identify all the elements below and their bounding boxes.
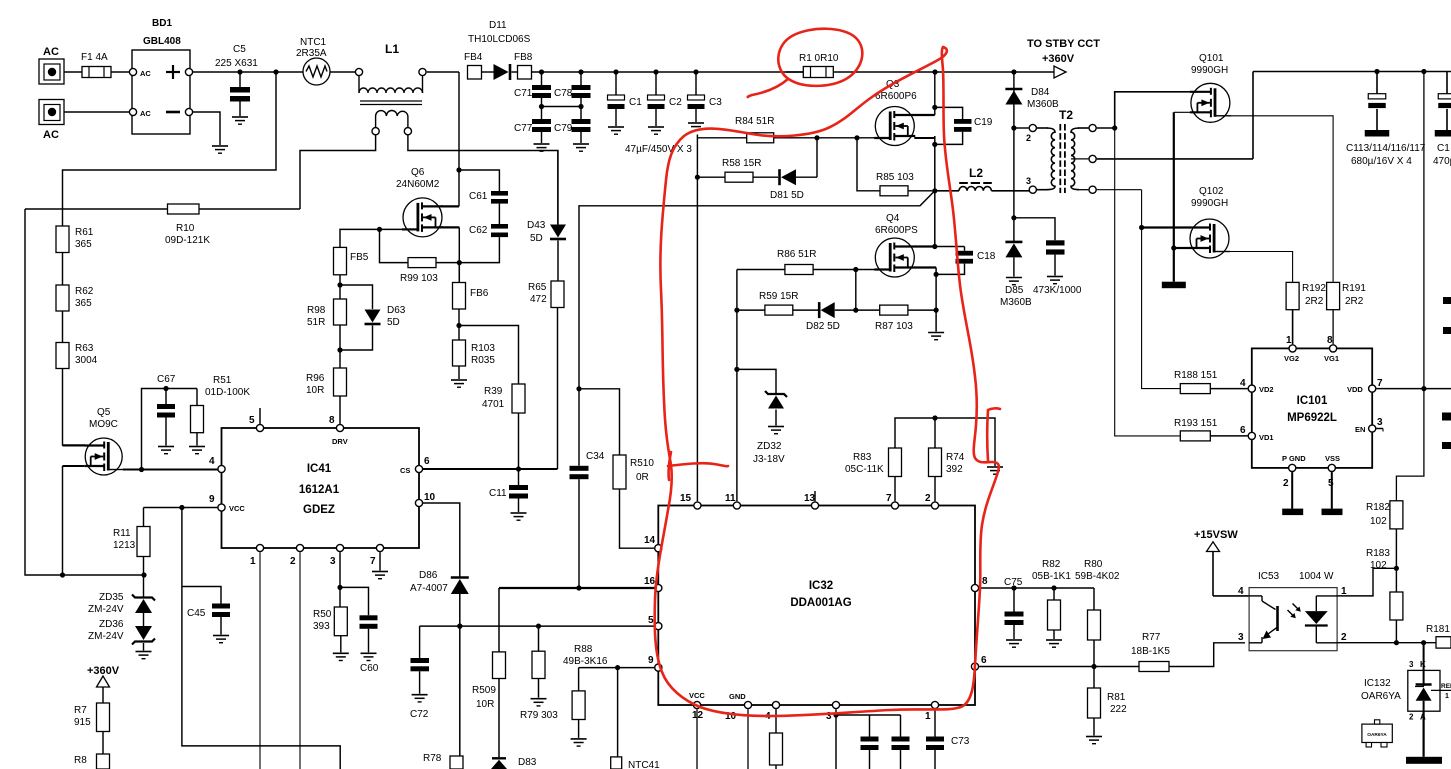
ground at R81 <box>1086 737 1102 744</box>
svg-text:D43: D43 <box>527 220 546 231</box>
svg-text:R035: R035 <box>471 355 495 366</box>
svg-text:TO STBY CCT: TO STBY CCT <box>1027 38 1100 50</box>
svg-text:MP6922L: MP6922L <box>1287 412 1337 424</box>
svg-text:R7: R7 <box>74 705 87 716</box>
wire VCC node to C45 <box>182 508 340 769</box>
capacitor C19 <box>935 107 993 144</box>
capacitor C34 <box>570 386 605 588</box>
svg-text:C77: C77 <box>514 123 533 134</box>
svg-text:18B-1K5: 18B-1K5 <box>1131 646 1170 657</box>
svg-text:7: 7 <box>1377 378 1383 389</box>
svg-text:R191: R191 <box>1342 283 1366 294</box>
capacitor C67 <box>157 374 176 446</box>
svg-text:R83: R83 <box>853 452 872 463</box>
svg-text:10R: 10R <box>476 699 494 710</box>
svg-text:R61: R61 <box>75 227 94 238</box>
svg-text:51R: 51R <box>307 317 325 328</box>
ground at ZD32 <box>768 427 784 434</box>
svg-text:M360B: M360B <box>1027 99 1059 110</box>
svg-text:Q101: Q101 <box>1199 53 1224 64</box>
wire rail drop to R182 <box>1396 72 1424 501</box>
capacitor C71 <box>514 72 551 107</box>
capacitor C5 225 X631 <box>215 44 258 116</box>
svg-text:13: 13 <box>804 493 816 504</box>
svg-text:VG2: VG2 <box>1284 354 1299 363</box>
wire Q5 source <box>63 466 85 575</box>
wire L1 sec right aux <box>408 135 558 224</box>
IC IC101 MP6922L <box>1240 335 1383 489</box>
resistor R181 right edge <box>1426 624 1451 648</box>
svg-text:R99 103: R99 103 <box>400 273 438 284</box>
svg-text:R39: R39 <box>484 386 503 397</box>
svg-text:TH10LCD06S: TH10LCD06S <box>468 34 531 45</box>
resistor R65 472 <box>528 281 564 308</box>
resistor R82 05B-1K1 <box>1032 559 1071 639</box>
svg-text:D82 5D: D82 5D <box>806 321 840 332</box>
ground bar at P GND <box>1282 509 1303 515</box>
wire IC41 pin9 VCC line <box>144 505 218 510</box>
svg-text:C71: C71 <box>514 88 533 99</box>
svg-text:915: 915 <box>74 717 91 728</box>
wire ZD35-ZD36 <box>143 613 145 626</box>
svg-text:ZD35: ZD35 <box>99 592 124 603</box>
resistor R193 151 <box>1174 418 1248 441</box>
svg-text:6R600PS: 6R600PS <box>875 225 918 236</box>
svg-text:D63: D63 <box>387 305 406 316</box>
IC IC41 1612A1 GDEZ <box>209 415 436 567</box>
svg-text:R62: R62 <box>75 286 94 297</box>
svg-text:R96: R96 <box>306 373 325 384</box>
svg-text:6: 6 <box>424 456 430 467</box>
svg-text:2R2: 2R2 <box>1305 296 1324 307</box>
svg-text:R103: R103 <box>471 343 495 354</box>
svg-text:C19: C19 <box>974 117 993 128</box>
svg-text:ZD36: ZD36 <box>99 619 124 630</box>
ground at C1 <box>608 127 624 134</box>
ground at ZD36 <box>136 652 152 659</box>
svg-text:222: 222 <box>1110 704 1127 715</box>
capacitor C2 bulk <box>648 72 683 126</box>
svg-text:IC32: IC32 <box>809 580 833 592</box>
capacitor C3 bulk <box>688 72 723 122</box>
svg-text:09D-121K: 09D-121K <box>165 235 210 246</box>
resistor R88 49B-3K16 <box>563 644 608 738</box>
svg-text:473K/1000: 473K/1000 <box>1033 285 1082 296</box>
ground at R50 <box>333 636 349 661</box>
svg-text:R79 303: R79 303 <box>520 710 558 721</box>
diode D86 A7-4007 <box>410 570 469 594</box>
wire FB6 to R103 <box>456 309 461 340</box>
svg-text:C73: C73 <box>951 736 970 747</box>
svg-text:1213: 1213 <box>113 540 136 551</box>
wire R98 to R96 <box>337 325 342 368</box>
wire AC1 to F1 <box>64 71 82 73</box>
wire Q4 drain stub <box>915 244 938 249</box>
svg-text:3004: 3004 <box>75 355 98 366</box>
resistor R59 15R <box>737 291 819 315</box>
svg-text:DRV: DRV <box>332 437 348 446</box>
capacitor C11 <box>489 469 528 512</box>
resistor R96 10R <box>306 368 347 396</box>
capacitor C1xx 470u right edge <box>1433 72 1451 168</box>
svg-text:C34: C34 <box>586 451 605 462</box>
svg-text:ZD32: ZD32 <box>757 441 782 452</box>
svg-text:1004 W: 1004 W <box>1299 571 1334 582</box>
svg-text:D83: D83 <box>518 757 537 768</box>
ground at C2 <box>648 127 664 134</box>
wire C62 to source node <box>459 237 499 263</box>
wire main rail BD1 to NTC1 <box>193 69 303 74</box>
mosfet Q3 6R600P6 <box>874 79 917 146</box>
stub IC41 pin5 <box>259 408 261 424</box>
svg-text:59B-4K02: 59B-4K02 <box>1075 571 1120 582</box>
svg-text:C1: C1 <box>1437 143 1450 154</box>
capacitor C62 <box>469 224 508 237</box>
ground at 473K cap <box>1047 277 1063 284</box>
svg-text:VSS: VSS <box>1325 454 1340 463</box>
ground at C79 <box>573 144 589 151</box>
capacitor C75 <box>1004 577 1024 639</box>
svg-text:R65: R65 <box>528 282 547 293</box>
wire IC41 pin2 column <box>299 552 301 769</box>
wire AC2 to BD1 <box>64 111 133 113</box>
resistor R62 365 <box>56 285 94 311</box>
svg-text:ZM-24V: ZM-24V <box>88 604 124 615</box>
wire Q4 gate line <box>737 267 889 272</box>
svg-text:R82: R82 <box>1042 559 1061 570</box>
resistor R182 102 <box>1366 501 1403 529</box>
wire D43 to R65 <box>557 241 559 282</box>
wire FB4-D11 <box>482 71 494 73</box>
wire +15VSW to IC53 pin4 <box>1213 595 1249 597</box>
svg-text:C61: C61 <box>469 191 488 202</box>
svg-text:470µ: 470µ <box>1433 156 1451 167</box>
svg-text:4: 4 <box>209 456 215 467</box>
mosfet Q102 9990GH <box>1189 186 1230 258</box>
wire R61-R62 <box>62 253 64 286</box>
svg-text:2: 2 <box>925 493 931 504</box>
svg-text:+15VSW: +15VSW <box>1194 529 1238 541</box>
svg-text:C3: C3 <box>709 97 722 108</box>
svg-text:R77: R77 <box>1142 632 1161 643</box>
svg-text:R50: R50 <box>313 609 332 620</box>
svg-text:VCC: VCC <box>689 691 705 700</box>
svg-text:3: 3 <box>1238 632 1244 643</box>
svg-text:R183: R183 <box>1366 548 1390 559</box>
wire Q3 source to L2 node <box>914 136 937 191</box>
svg-text:Q6: Q6 <box>411 167 425 178</box>
svg-text:D86: D86 <box>419 570 438 581</box>
svg-text:BD1: BD1 <box>152 18 172 29</box>
svg-text:D85: D85 <box>1005 285 1024 296</box>
ground bar at IC132 <box>1406 757 1442 764</box>
svg-text:NTC1: NTC1 <box>300 37 327 48</box>
zener ZD35 ZM-24V <box>88 592 155 615</box>
wire IC53 pin1 to R183 node <box>1337 568 1396 596</box>
svg-text:10: 10 <box>424 492 436 503</box>
svg-text:2: 2 <box>290 556 296 567</box>
resistor R58 15R <box>697 158 778 182</box>
wire R96 to IC41 pin8 <box>339 396 341 424</box>
resistor R79 303 <box>520 626 558 721</box>
svg-text:NTC41: NTC41 <box>628 760 660 769</box>
svg-text:A7-4007: A7-4007 <box>410 583 448 594</box>
svg-text:R74: R74 <box>946 452 965 463</box>
resistor below pin4 <box>770 733 783 769</box>
wire IC32 pin8 line <box>979 585 1094 590</box>
wire Q102 gate to R192 <box>1230 252 1293 283</box>
resistor R11 1213 <box>113 527 150 557</box>
mosfet Q5 MO9C <box>84 407 123 475</box>
wire R62-R63 <box>62 311 64 343</box>
wire ZD36 to ground <box>143 643 145 651</box>
ground at R74 rail <box>987 467 1003 474</box>
wire IC32 pin12 column <box>696 709 698 769</box>
ground at D85 <box>1006 278 1022 285</box>
svg-text:49B-3K16: 49B-3K16 <box>563 656 608 667</box>
capacitor C1 bulk <box>608 72 643 126</box>
svg-text:2: 2 <box>1026 133 1031 143</box>
svg-text:15: 15 <box>680 493 692 504</box>
wire D84 to T2 pin2 <box>1011 106 1016 242</box>
svg-text:L2: L2 <box>969 166 983 180</box>
resistor R80 59B-4K02 <box>1075 559 1120 667</box>
red loop annotation <box>655 47 999 716</box>
resistor R1 0R10 fuse style <box>786 53 935 78</box>
wire FB5 to R98 <box>337 275 342 299</box>
svg-text:C62: C62 <box>469 225 488 236</box>
svg-text:FB6: FB6 <box>470 288 489 299</box>
resistor R99 103 <box>380 229 460 284</box>
svg-text:VDD: VDD <box>1347 385 1363 394</box>
svg-text:2R2: 2R2 <box>1345 296 1364 307</box>
svg-text:C5: C5 <box>233 44 246 55</box>
svg-text:D84: D84 <box>1031 87 1050 98</box>
svg-text:14: 14 <box>644 535 656 546</box>
svg-text:393: 393 <box>313 621 330 632</box>
resistor R85 103 <box>857 138 935 196</box>
ground at C75 <box>1006 640 1022 647</box>
transformer T2 <box>1029 108 1096 193</box>
svg-text:12: 12 <box>692 710 704 721</box>
ground at R103 <box>451 380 467 387</box>
resistor R39 4701 <box>482 384 525 413</box>
wire R183 to opto line <box>1394 620 1399 645</box>
wire IC41 pin10 to D86 <box>423 503 460 577</box>
svg-text:4: 4 <box>1240 378 1246 389</box>
resistor R7 915 <box>74 703 110 732</box>
wire Q101 source to ground bar <box>1171 112 1190 281</box>
wire VSS to bar <box>1331 472 1333 509</box>
cap plates right edge upper <box>1443 297 1451 334</box>
resistor R87 103 <box>875 305 936 332</box>
wire Q102 source <box>1174 247 1190 249</box>
diode D43 5D <box>527 151 566 245</box>
svg-text:Q4: Q4 <box>886 213 900 224</box>
svg-text:C2: C2 <box>669 97 682 108</box>
wire IC32 pin6 line <box>979 664 1139 669</box>
svg-text:2R35A: 2R35A <box>296 48 327 59</box>
capacitor at pin3 b <box>892 715 910 769</box>
svg-text:6: 6 <box>981 655 987 666</box>
ground at C11 <box>511 513 527 520</box>
capacitor 473K/1000 <box>1014 218 1082 296</box>
IC IC132 OAR6YA <box>1361 643 1451 722</box>
svg-text:R84 51R: R84 51R <box>735 116 774 127</box>
ferrite bead FB8 <box>514 52 533 79</box>
ground at C45 <box>213 636 229 643</box>
svg-text:3: 3 <box>1377 417 1383 428</box>
wire C61 to C62 <box>498 204 500 224</box>
svg-text:+360V: +360V <box>1042 53 1075 65</box>
wire Q6 source <box>441 227 462 282</box>
svg-text:IC132: IC132 <box>1364 678 1391 689</box>
wire D82 node to gate <box>853 270 858 313</box>
ground at IC41 pin7 <box>372 552 388 579</box>
svg-text:R509: R509 <box>472 685 496 696</box>
svg-text:MO9C: MO9C <box>89 419 118 430</box>
resistor R191 2R2 <box>1327 282 1367 344</box>
svg-text:R98: R98 <box>307 305 326 316</box>
wire T2 bottom pin to Q102 drain and R188 <box>1097 190 1190 389</box>
label 47uF/450V X 3 <box>625 144 692 155</box>
svg-text:ZM-24V: ZM-24V <box>88 631 124 642</box>
net TO STBY CCT +360V <box>1027 38 1100 78</box>
svg-text:R58 15R: R58 15R <box>722 158 761 169</box>
svg-text:FB8: FB8 <box>514 52 533 63</box>
diode D83 <box>491 757 537 769</box>
svg-text:+360V: +360V <box>87 665 120 677</box>
wire Q3 drain feed <box>915 72 938 115</box>
diode D84 M360B <box>1005 72 1059 110</box>
diode D81 5D <box>770 138 817 201</box>
wire IC32 pin4 column <box>775 709 777 733</box>
wire T2 top pin to Q101 drain <box>1097 92 1191 131</box>
wire CS pin6 line <box>423 466 558 471</box>
wire Q3 gate line <box>697 135 889 140</box>
resistor R50 393 <box>313 607 347 636</box>
net +15VSW arrow <box>1194 529 1238 596</box>
wire pin11 riser <box>734 270 739 502</box>
wire R182 to R183 <box>1394 529 1399 592</box>
ground at C77 <box>534 144 550 151</box>
svg-text:EN: EN <box>1355 425 1365 434</box>
svg-text:C75: C75 <box>1004 577 1023 588</box>
svg-text:10R: 10R <box>306 385 324 396</box>
svg-text:REF: REF <box>1441 683 1451 690</box>
wire Q6 drain stub <box>441 205 459 207</box>
svg-text:VD1: VD1 <box>1259 433 1274 442</box>
svg-text:1: 1 <box>250 556 256 567</box>
wire T2 pin2 <box>1014 128 1031 143</box>
svg-text:R78: R78 <box>423 753 442 764</box>
svg-text:DDA001AG: DDA001AG <box>790 597 851 609</box>
capacitor C60 <box>340 587 379 674</box>
wire P GND to bar <box>1291 472 1293 509</box>
svg-text:Q102: Q102 <box>1199 186 1224 197</box>
resistor R10 09D-121K <box>25 204 300 246</box>
svg-text:C1: C1 <box>629 97 642 108</box>
svg-text:24N60M2: 24N60M2 <box>396 179 440 190</box>
wire secondary output rail <box>1253 69 1451 74</box>
svg-text:9: 9 <box>648 655 654 666</box>
svg-text:0R: 0R <box>636 472 649 483</box>
svg-text:R188 151: R188 151 <box>1174 370 1218 381</box>
svg-text:8: 8 <box>982 576 988 587</box>
svg-text:1612A1: 1612A1 <box>299 484 340 496</box>
wire IC32 pin9 line <box>579 665 655 670</box>
wire IC53 pin2 line <box>1337 640 1436 645</box>
wire IC41 pin4 gate line <box>123 467 218 472</box>
svg-text:3: 3 <box>330 556 336 567</box>
resistor R81 222 <box>1088 667 1128 736</box>
resistor R84 51R <box>735 116 774 143</box>
svg-text:6R600P6: 6R600P6 <box>875 91 917 102</box>
diode D63 5D <box>340 285 406 350</box>
wire IC32 pin3 node <box>833 709 900 769</box>
resistor R86 51R <box>777 249 816 275</box>
wire R509 to D83 <box>498 679 500 758</box>
wire Q4 source down <box>915 268 939 332</box>
wire L1 sec left to R10 riser <box>300 135 376 209</box>
resistor R98 51R <box>307 299 347 328</box>
wire Q5 drain <box>63 445 86 447</box>
ground at BD1 <box>212 146 228 153</box>
red tick right <box>987 408 1000 461</box>
svg-text:5: 5 <box>648 615 654 626</box>
svg-text:GDEZ: GDEZ <box>303 504 335 516</box>
ground at R82 <box>1046 640 1062 647</box>
wire R11 to ZD35 <box>143 557 145 599</box>
svg-text:11: 11 <box>725 493 736 504</box>
svg-text:2: 2 <box>1341 632 1347 643</box>
svg-text:R63: R63 <box>75 343 94 354</box>
svg-text:R192: R192 <box>1302 283 1326 294</box>
IC IC32 DDA001AG <box>644 493 988 722</box>
svg-text:05C-11K: 05C-11K <box>845 464 884 475</box>
capacitor C45 <box>182 587 230 635</box>
resistor R78 <box>417 753 463 769</box>
wire R39 to CS line <box>518 413 520 469</box>
wire D11-FB8 <box>512 71 518 73</box>
zener ZD36 ZM-24V <box>88 619 155 645</box>
svg-text:R87 103: R87 103 <box>875 321 913 332</box>
wire left rail down <box>25 209 147 578</box>
svg-text:4701: 4701 <box>482 399 505 410</box>
red circle around R1 <box>748 29 863 97</box>
ground bar at Q102 <box>1162 282 1186 289</box>
diode D85 M360B <box>1000 242 1032 308</box>
svg-text:AC: AC <box>140 109 151 118</box>
svg-text:47µF/450V X 3: 47µF/450V X 3 <box>625 144 692 155</box>
AC connector J2 <box>39 100 64 142</box>
svg-text:R80: R80 <box>1084 559 1103 570</box>
svg-text:7: 7 <box>370 556 376 567</box>
ground at C72 <box>412 695 428 702</box>
svg-text:IC41: IC41 <box>307 463 332 475</box>
resistor R183 102 <box>1366 548 1403 620</box>
svg-text:680µ/16V X 4: 680µ/16V X 4 <box>1351 156 1412 167</box>
svg-text:8: 8 <box>1327 335 1333 346</box>
svg-text:OAR6YA: OAR6YA <box>1361 691 1401 702</box>
wire C71-C77 bus <box>539 104 584 109</box>
wire R103 to ground <box>458 366 460 379</box>
svg-text:R193 151: R193 151 <box>1174 418 1218 429</box>
svg-text:IC53: IC53 <box>1258 571 1280 582</box>
resistor R51 01D-100K <box>191 375 251 446</box>
wire R83 R74 rail <box>895 415 995 501</box>
svg-text:9990GH: 9990GH <box>1191 198 1228 209</box>
